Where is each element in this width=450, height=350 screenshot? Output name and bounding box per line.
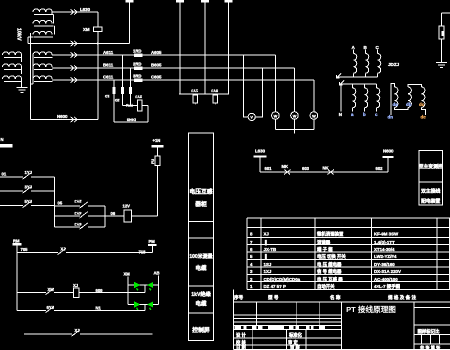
LED green right-pointing y304.5: [134, 301, 140, 307]
column divider 4: [189, 312, 214, 314]
wire JDZJ secondary bottom lead: [364, 108, 366, 112]
annotation column box: [189, 133, 214, 341]
materials list table: [247, 217, 450, 219]
svg-text:1YJ: 1YJ: [191, 89, 198, 93]
junction XM-neutral: [97, 42, 99, 44]
wire JDZJ primary bottom lead: [365, 73, 367, 77]
wire from right edge: [442, 12, 450, 14]
wire tap to lamps bottom: [144, 305, 146, 311]
svg-text:1YJ: 1YJ: [25, 170, 33, 175]
svg-text:DX-31A 220V: DX-31A 220V: [374, 269, 401, 274]
wire coil baseline: [34, 14, 53, 16]
wire y94 bus: [179, 93, 229, 95]
wire meters common stub: [294, 130, 296, 134]
svg-text:6YJ: 6YJ: [74, 222, 81, 227]
contact XM: [47, 288, 54, 293]
svg-text:XT14-30/4: XT14-30/4: [374, 247, 395, 252]
open delta coil 3: [422, 87, 425, 107]
wire meter bottom stub: [313, 119, 315, 129]
svg-text:B605: B605: [151, 63, 162, 68]
fuse 5FU on x122: [121, 87, 124, 94]
svg-text:共 张 第 张: 共 张 第 张: [420, 344, 441, 350]
relay box XJ: [74, 288, 80, 298]
svg-text:MK: MK: [282, 164, 289, 169]
wire JDZJ primary common: [338, 76, 378, 78]
fuse 6FU on x130: [129, 87, 132, 94]
svg-text:规 格 及 备 注: 规 格 及 备 注: [388, 294, 416, 301]
svg-text:L630: L630: [255, 149, 266, 154]
fuse FD element: [442, 31, 444, 36]
switch NK contact: [328, 170, 335, 175]
svg-text:5YJ: 5YJ: [25, 199, 33, 204]
contact XJ 1: [59, 248, 66, 253]
svg-text:db: db: [406, 102, 412, 107]
svg-text:D643: D643: [127, 118, 136, 122]
wire branch y227 b: [88, 226, 105, 228]
wire PT core-neutral line: [30, 33, 32, 120]
wire 609 b: [79, 292, 145, 294]
svg-text:1XJ: 1XJ: [264, 269, 272, 274]
svg-text:NK: NK: [323, 165, 329, 170]
svg-text:+1N: +1N: [153, 138, 161, 143]
svg-text:V: V: [250, 116, 253, 120]
svg-text:端 子 箱: 端 子 箱: [317, 246, 333, 253]
wire secondary neutral stub: [31, 83, 34, 85]
wire primary to ground: [21, 79, 23, 87]
svg-text:N600: N600: [383, 149, 394, 154]
wire JDZJ primary lead: [377, 50, 379, 54]
wire JDZJ secondary top lead: [376, 84, 378, 88]
wire coil baseline: [34, 81, 53, 83]
wire branch y206: [55, 205, 80, 207]
wire V-meter left leg: [244, 55, 249, 117]
wire coil baseline: [34, 69, 53, 71]
JDZJ primary coil x353.5: [354, 54, 357, 74]
wire bottom XJ a: [24, 333, 72, 335]
terminal bar 1N: [152, 145, 164, 148]
relay coil 7YJ box: [213, 95, 218, 103]
svg-text:dc: dc: [419, 102, 425, 107]
contact 6YJ: [81, 223, 88, 228]
svg-text:dc: dc: [421, 114, 427, 119]
svg-text:3YJ: 3YJ: [25, 184, 33, 189]
PT1 aux secondary coil 3: [33, 31, 52, 34]
wire down to D643 return: [147, 106, 149, 123]
svg-text:C611: C611: [103, 75, 114, 80]
svg-text:图样标记比: 图样标记比: [418, 328, 441, 335]
wire XM to bus: [97, 32, 99, 44]
svg-text:XJ: XJ: [73, 283, 79, 288]
wire cap to y43 bus: [129, 2, 131, 43]
bus terminal cap x129.5: [126, 0, 134, 2]
wire JDZJ primary lead: [353, 50, 355, 54]
svg-text:审 核: 审 核: [290, 344, 300, 350]
wire primary series link 2: [21, 67, 23, 74]
svg-text:609: 609: [96, 288, 104, 293]
chevron L630 wire: [71, 9, 78, 15]
JDZJ secondary coil a: [353, 88, 356, 108]
wire coil baseline: [4, 81, 21, 83]
wire tap to lamps top: [144, 285, 146, 293]
svg-text:705: 705: [21, 247, 29, 252]
wire meter bottom stub: [274, 119, 276, 129]
bus terminal cap x180: [176, 0, 184, 2]
wire coil lead: [21, 78, 23, 80]
wire riser x157.5: [157, 165, 159, 216]
svg-text:W: W: [274, 114, 278, 118]
svg-text:1SJ: 1SJ: [264, 262, 272, 267]
terminal bar N600: [383, 156, 394, 158]
svg-text:JX-TB: JX-TB: [264, 247, 277, 252]
wire meter bottom stub: [294, 119, 296, 129]
svg-text:XM: XM: [124, 272, 131, 277]
wire primary series link 1: [21, 55, 23, 62]
wire JDZJ secondary bottom lead: [376, 108, 378, 112]
svg-text:3RD: 3RD: [133, 73, 141, 78]
svg-text:消谐器: 消谐器: [317, 239, 331, 246]
wire D643 return: [114, 121, 148, 123]
wire riser N600: [387, 158, 389, 172]
svg-text:DZ 47 5? P: DZ 47 5? P: [264, 284, 287, 289]
svg-text:电压互感: 电压互感: [189, 188, 212, 196]
svg-text:A611: A611: [103, 50, 114, 55]
terminal bar RM: [13, 243, 22, 245]
resistor XM (damping): [94, 27, 102, 32]
node N600 chevron: [71, 117, 78, 123]
wire secondary left link: [32, 55, 34, 84]
svg-text:da: da: [393, 102, 399, 107]
contact 4YJ: [81, 212, 88, 217]
PT1 main secondary coil 2: [33, 64, 52, 67]
svg-text:AC-400/100: AC-400/100: [374, 277, 398, 282]
wire lamp rail left: [127, 277, 129, 305]
resistor 12V box: [124, 210, 131, 222]
wire aux bottom lead: [27, 37, 29, 43]
note box divider: [419, 181, 443, 183]
svg-text:CD(D)CD(M)CD0a: CD(D)CD(M)CD0a: [264, 277, 301, 282]
ground right: [436, 63, 447, 68]
wire cap x180 down: [179, 2, 181, 94]
wire rail x17: [16, 245, 18, 310]
wire y205 b: [31, 205, 55, 207]
svg-text:4×L-7 提手图: 4×L-7 提手图: [374, 283, 401, 290]
open delta coil 1: [395, 87, 398, 107]
wire fuse to ground: [441, 39, 443, 62]
open delta top link 2: [408, 84, 422, 87]
chevron neutral wire: [71, 41, 78, 47]
svg-text:标准化: 标准化: [288, 332, 303, 339]
svg-text:2RD: 2RD: [133, 61, 141, 66]
svg-text:LW2-YZ/F4: LW2-YZ/F4: [374, 254, 397, 259]
svg-text:配电装置: 配电装置: [421, 198, 440, 205]
wire riser PM: [151, 246, 153, 253]
wire lamp branch top: [128, 284, 159, 286]
svg-text:06: 06: [111, 211, 116, 216]
contact 1YJ: [24, 173, 31, 178]
open delta coil 2: [408, 87, 411, 107]
svg-text:01: 01: [2, 171, 7, 176]
svg-text:b: b: [363, 112, 366, 117]
svg-text:N: N: [339, 112, 342, 117]
wire bottom XJ b: [80, 333, 152, 335]
wire branch y227: [55, 226, 80, 228]
svg-text:微机消谐装置: 微机消谐装置: [316, 231, 344, 238]
meter V (voltmeter): [248, 113, 255, 120]
svg-text:12V: 12V: [123, 204, 131, 209]
wire B611-B605 phase B: [52, 67, 294, 69]
svg-text:DY-36/160: DY-36/160: [374, 262, 395, 267]
column divider 3: [189, 285, 214, 287]
wire y191 b: [31, 190, 55, 192]
wire aux series link a: [53, 15, 55, 24]
wire to fuse FD: [441, 13, 443, 26]
JDZJ secondary coil b: [365, 88, 368, 108]
wire branch y215.8: [55, 215, 80, 217]
contact 6YJ lower: [47, 306, 54, 311]
svg-text:PM: PM: [149, 239, 156, 244]
contact 2YJ: [81, 202, 88, 207]
svg-text:L630: L630: [80, 7, 91, 12]
svg-text:控制屏: 控制屏: [192, 326, 210, 334]
wire y177 a: [0, 176, 23, 178]
wire y191 a: [0, 190, 23, 192]
svg-text:电 压 继电器: 电 压 继电器: [317, 261, 342, 268]
wire aux link stub b: [53, 25, 56, 27]
JDZJ primary coil x377.5: [378, 54, 381, 74]
wire coil lead: [21, 54, 23, 56]
PT1 main secondary coil 1: [33, 52, 52, 55]
wire coil baseline: [4, 57, 21, 59]
svg-text:XM: XM: [83, 27, 90, 32]
terminal bar left edge: [0, 144, 13, 147]
svg-text:602: 602: [376, 166, 384, 171]
svg-text:05: 05: [58, 200, 63, 205]
arrow JDZJ neutral 1: [337, 74, 342, 79]
svg-text:JDZJ: JDZJ: [388, 62, 400, 67]
svg-text:电压 切换 开关: 电压 切换 开关: [317, 253, 346, 260]
svg-text:RM: RM: [13, 239, 20, 244]
svg-text:双主接线: 双主接线: [421, 188, 440, 195]
wire JDZJ primary lead: [365, 50, 367, 54]
PT1 main secondary coil 3: [33, 76, 52, 79]
wire aux series link b: [53, 26, 55, 34]
JDZJ secondary coil c: [377, 88, 380, 108]
svg-text:B611: B611: [103, 63, 114, 68]
wire C611-C605 phase C: [52, 79, 314, 81]
terminal bar PM: [148, 244, 157, 246]
title block: [233, 302, 235, 350]
wire JDZJ secondary common: [341, 83, 377, 85]
switch MK contact: [284, 170, 291, 175]
fuse 2RD: [134, 66, 143, 70]
svg-text:100米测量: 100米测量: [189, 253, 212, 260]
wire coil baseline: [4, 69, 21, 71]
LED green right-pointing y285: [134, 282, 140, 288]
svg-text:自动开关: 自动开关: [317, 283, 335, 290]
svg-text:AB: AB: [154, 271, 160, 276]
JDZJ primary coil x365.5: [366, 54, 369, 74]
wire L630 drop: [259, 158, 261, 172]
wire bus x54.6: [54, 177, 56, 227]
wire coil baseline: [34, 36, 53, 38]
svg-text:dn: dn: [388, 114, 394, 119]
chevron phase B: [71, 65, 78, 71]
wire 5YJ coil stub: [214, 103, 216, 105]
wire 1YJ coil stub: [194, 103, 196, 105]
wire L630 down to XM: [97, 12, 99, 27]
contact 3YJ: [24, 187, 31, 192]
wire L630: [52, 11, 98, 13]
svg-text:4YJ: 4YJ: [74, 211, 81, 216]
wire aux bottom baseline: [28, 36, 34, 38]
wire N600 horizontal: [31, 119, 99, 121]
fuse 4FU on x114: [113, 87, 116, 94]
wire aux link stub a: [52, 14, 55, 16]
table header row: [233, 289, 235, 302]
column divider 1: [189, 221, 214, 223]
wire lamp branch bottom: [128, 304, 159, 306]
JDZJ open-delta winding: [391, 84, 395, 116]
meter W2 (wattmeter): [294, 68, 296, 112]
svg-text:W: W: [293, 114, 297, 118]
wire tap phase C down: [113, 80, 115, 122]
svg-text:XM: XM: [48, 287, 55, 292]
open delta bottom link 1: [395, 107, 409, 109]
meter W3 (wattmeter): [313, 80, 315, 112]
wire aux neutral y43: [28, 43, 130, 45]
svg-text:1kV绝缘: 1kV绝缘: [191, 290, 211, 298]
wire aux coil1 link: [51, 12, 53, 14]
wire to 2YJ: [122, 105, 137, 107]
wire cap x228 down: [228, 2, 230, 94]
svg-text:电缆: 电缆: [195, 264, 207, 272]
bus terminal cap x205: [201, 0, 209, 2]
svg-text:信 号 继电器: 信 号 继电器: [317, 268, 342, 275]
wire N lead: [340, 84, 342, 112]
svg-text:601: 601: [265, 166, 273, 171]
svg-text:5YJ: 5YJ: [211, 89, 218, 93]
wire JDZJ secondary top lead: [364, 84, 366, 88]
wire N1 a: [17, 310, 46, 312]
wire riser x98 N600 to junction: [97, 44, 99, 120]
wire JDZJ primary bottom lead: [353, 73, 355, 77]
svg-text:10kV: 10kV: [16, 28, 22, 41]
svg-text:W: W: [312, 114, 316, 118]
column divider 2: [189, 237, 214, 239]
contact 5YJ: [24, 201, 31, 206]
wire y177 b: [31, 176, 55, 178]
wire tap phase A down: [121, 55, 123, 106]
svg-text:N600: N600: [57, 114, 68, 119]
wire JDZJ secondary bottom lead: [352, 108, 354, 112]
LED green left-pointing y304.5: [147, 301, 153, 307]
LED green left-pointing y285: [147, 282, 153, 288]
fuse 3RD: [134, 78, 143, 82]
wire meters common bus: [275, 129, 314, 131]
wire N1 b: [54, 310, 145, 312]
svg-text:N: N: [1, 137, 4, 142]
fuse FU box mid: [155, 156, 160, 165]
wire JDZJ primary bottom lead: [377, 73, 379, 77]
svg-text:设 计: 设 计: [236, 332, 246, 339]
svg-text:603: 603: [302, 166, 310, 171]
wire branch y215.8 b: [88, 215, 105, 217]
contact XJ bottom: [73, 330, 80, 335]
ground PT1 neutral: [17, 88, 28, 93]
svg-text:2YJ: 2YJ: [74, 199, 81, 204]
wire output 06: [105, 215, 124, 217]
wire coil baseline: [34, 57, 53, 59]
wire coil baseline: [34, 25, 53, 27]
svg-text:电 压 互感 器: 电 压 互感 器: [317, 276, 343, 283]
wire V-meter right leg: [255, 68, 262, 117]
chevron phase C: [71, 77, 78, 83]
wire 609 a: [17, 292, 46, 294]
svg-text:XJ: XJ: [264, 232, 270, 237]
wire lamp rail right: [158, 276, 160, 305]
svg-text:序号: 序号: [234, 294, 244, 301]
PT1 primary coil phase 3: [3, 76, 22, 79]
wire 705 a: [17, 252, 58, 254]
svg-text:FU: FU: [151, 159, 155, 164]
svg-text:2YJ: 2YJ: [135, 95, 142, 99]
svg-text:N1: N1: [96, 306, 102, 311]
svg-text:A605: A605: [151, 50, 162, 55]
chevron phase A: [71, 52, 78, 58]
meter W1 (wattmeter): [274, 55, 276, 112]
note box right: [419, 151, 443, 206]
svg-text:718: 718: [139, 249, 147, 254]
PT1 aux secondary coil 1: [33, 9, 52, 12]
svg-text:至主变测控: 至主变测控: [419, 163, 443, 170]
wire 601-603 voltmeter circuit: [260, 171, 388, 173]
wire 609 mid: [54, 292, 74, 294]
PT1 primary coil phase 2: [3, 64, 22, 67]
svg-text:7FU: 7FU: [126, 103, 133, 107]
PT1 aux secondary coil 2: [33, 20, 52, 23]
wire FU to 1N terminal: [157, 148, 159, 156]
wire tap phase B down: [129, 68, 131, 106]
wire y205 a: [0, 205, 23, 207]
svg-text:KF-9M 3SW: KF-9M 3SW: [374, 232, 399, 237]
arrow JDZJ neutral 2: [340, 81, 345, 86]
svg-text:1RD: 1RD: [133, 48, 141, 53]
wire dc lead: [422, 107, 426, 115]
svg-text:1.4(0)-1TT: 1.4(0)-1TT: [374, 240, 395, 245]
wire 12V to riser: [131, 215, 157, 217]
svg-text:C605: C605: [151, 75, 162, 80]
wire coil lead: [21, 66, 23, 68]
fuse FD box: [439, 26, 444, 39]
wire branch y206 b: [88, 205, 105, 207]
terminal bar L630: [254, 156, 267, 158]
svg-text:1D: 1D: [105, 94, 110, 98]
svg-text:电缆: 电缆: [195, 300, 207, 308]
wire 2YJ out: [142, 105, 148, 107]
svg-text:型 号: 型 号: [268, 294, 279, 301]
wire 718: [66, 252, 152, 254]
relay coil 5YJ box: [193, 95, 198, 103]
relay coil 2YJ box: [137, 100, 142, 111]
wire bus x104.8: [104, 206, 106, 227]
wire A611-A605 phase A: [52, 54, 275, 56]
fuse 1RD: [134, 53, 143, 57]
svg-text:名 称: 名 称: [330, 294, 341, 301]
svg-text:PT 接线原理图: PT 接线原理图: [346, 304, 396, 314]
svg-text:2D: 2D: [115, 98, 120, 102]
svg-text:日 期: 日 期: [236, 344, 246, 350]
bus terminal cap x228.5: [225, 0, 233, 2]
